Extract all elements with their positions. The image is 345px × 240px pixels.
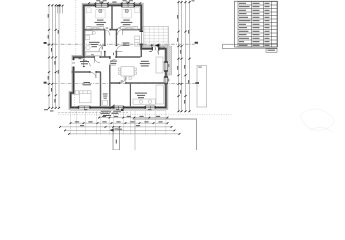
couch nappali (156, 57, 163, 73)
big rectangle inner line (134, 119, 136, 150)
door jambs vertical walls (104, 45, 106, 46)
door jambs (104, 29, 105, 31)
terrace door upper wing (140, 32, 144, 44)
wall outer insulation contour (69, 3, 168, 109)
door opening left wall (72, 60, 76, 66)
wardrobe bedroom2 (121, 26, 138, 29)
entrance door right section (153, 49, 159, 55)
faint watermark right (300, 109, 334, 132)
interior wall between bedrooms (111, 6, 113, 30)
left dim ticks (48, 4, 50, 6)
section line A2 lower (47, 83, 199, 85)
left dim numbers (47, 14, 50, 18)
room label etkezo corridor (110, 61, 117, 62)
top dimension line (89, 2, 141, 4)
bottom dim line 3 (60, 126, 172, 128)
wall bottom of middle zone (85, 56, 141, 58)
side paving strip (167, 46, 172, 75)
bathtub (85, 51, 101, 56)
kamra shelves (135, 36, 140, 46)
room label bath (89, 42, 100, 43)
stair box top marks (112, 126, 120, 128)
chimney mark below wall (121, 109, 124, 111)
room label kamra (123, 43, 130, 44)
room label eloszoba (80, 61, 89, 62)
section line A2 upper (47, 43, 195, 45)
entrance arrow (155, 44, 160, 47)
table grid (238, 2, 277, 48)
window right wall 2 (164, 77, 168, 84)
door arc bath (99, 46, 105, 52)
table row texts (239, 2, 246, 5)
table outer frame (235, 1, 278, 47)
left dim cluster lines (49, 5, 59, 109)
bottom dim line 2 (71, 122, 169, 124)
foundation strip below wall (71, 109, 166, 111)
opening dim specks (106, 27, 109, 30)
window W1 top wall (96, 4, 109, 7)
stair tall box (113, 127, 120, 150)
window bottom wall 2 (114, 106, 124, 109)
boiler (103, 100, 108, 105)
bottom dim line 4 (65, 129, 175, 131)
wall konyha/furdo (129, 83, 131, 106)
entrance plus mark (150, 44, 153, 47)
boiler room wall left (100, 72, 102, 106)
room label konyha (135, 93, 147, 94)
door arc corridor mid (110, 59, 116, 65)
door arc bedroom1 (104, 30, 110, 36)
bed bedroom2 (122, 8, 140, 18)
north arrow (110, 129, 114, 132)
top short dim lines (58, 6, 63, 14)
window bottom wall 3 (145, 106, 155, 109)
top dim ticks (88, 2, 90, 4)
building outer wall core (71, 5, 166, 107)
bed lower szoba (75, 91, 91, 103)
lamp bedroom2 (125, 9, 128, 12)
top dim numbers (99, 1, 103, 4)
door arc bedroom2 (117, 30, 122, 35)
terrace brick hatch (143, 27, 169, 46)
window W2 top wall (122, 4, 135, 7)
door arc szoba-hall (94, 57, 100, 63)
dotted line under building long (58, 114, 233, 116)
narrow detail box right (197, 66, 207, 108)
tiny top number right cluster (192, 0, 195, 2)
corridor wall lower vertical (109, 57, 111, 106)
room label bedroom1 (97, 20, 104, 21)
section label A2 left lower (44, 82, 47, 84)
dotted roof line vertical lower (74, 78, 76, 115)
section label A2 right lower (196, 82, 199, 84)
dashed line under building (58, 111, 128, 113)
room label szoba lower (84, 82, 91, 83)
table total band (223, 44, 278, 49)
door opening entrance (153, 47, 159, 51)
under-window dim marks (84, 108, 87, 111)
section label A2 left upper (44, 42, 47, 44)
room label bedroom2 (123, 20, 130, 21)
door arc hall-szoba (90, 72, 96, 78)
lamp bedroom1 (99, 9, 102, 12)
wardrobe bedroom1 (87, 26, 104, 29)
bottom dim line 1 (99, 117, 168, 119)
dining table nappali (118, 67, 136, 80)
right dim numbers (176, 15, 179, 19)
wall kamra right lower (140, 49, 142, 57)
dotted roof line vertical upper (75, 0, 77, 56)
section label A2 right upper (195, 42, 198, 44)
wall nappali/konyha (110, 82, 165, 84)
corridor wall left (104, 30, 106, 57)
door arc kamra2 (116, 46, 122, 52)
right dim cluster lines (179, 1, 190, 113)
stair diagonal mark (110, 105, 115, 109)
bath fixtures (85, 31, 95, 50)
hall wall horizontal (72, 71, 101, 73)
boiler room label (103, 93, 108, 96)
big rectangle bottom right (133, 119, 197, 150)
door arc nappali (120, 77, 126, 83)
right dim ticks (177, 1, 179, 3)
bottom dim line 5 (69, 133, 180, 135)
left cluster bottom numbers (44, 108, 48, 111)
window right wall 1 (164, 62, 168, 71)
window bottom wall 1 (79, 106, 91, 109)
text block below plan (104, 109, 111, 110)
room label nappali (141, 61, 149, 62)
bed bedroom1 (86, 8, 105, 18)
door arc hall entry (84, 60, 91, 67)
window mid ticks top (101, 2, 129, 4)
corridor wall right (115, 30, 117, 57)
interior wall below bedrooms (85, 29, 141, 31)
building outer wall (71, 5, 166, 107)
kitchen counter (133, 85, 164, 104)
window labels top (96, 0, 100, 2)
table sum cell (266, 48, 277, 52)
witness extension lines (70, 110, 72, 135)
